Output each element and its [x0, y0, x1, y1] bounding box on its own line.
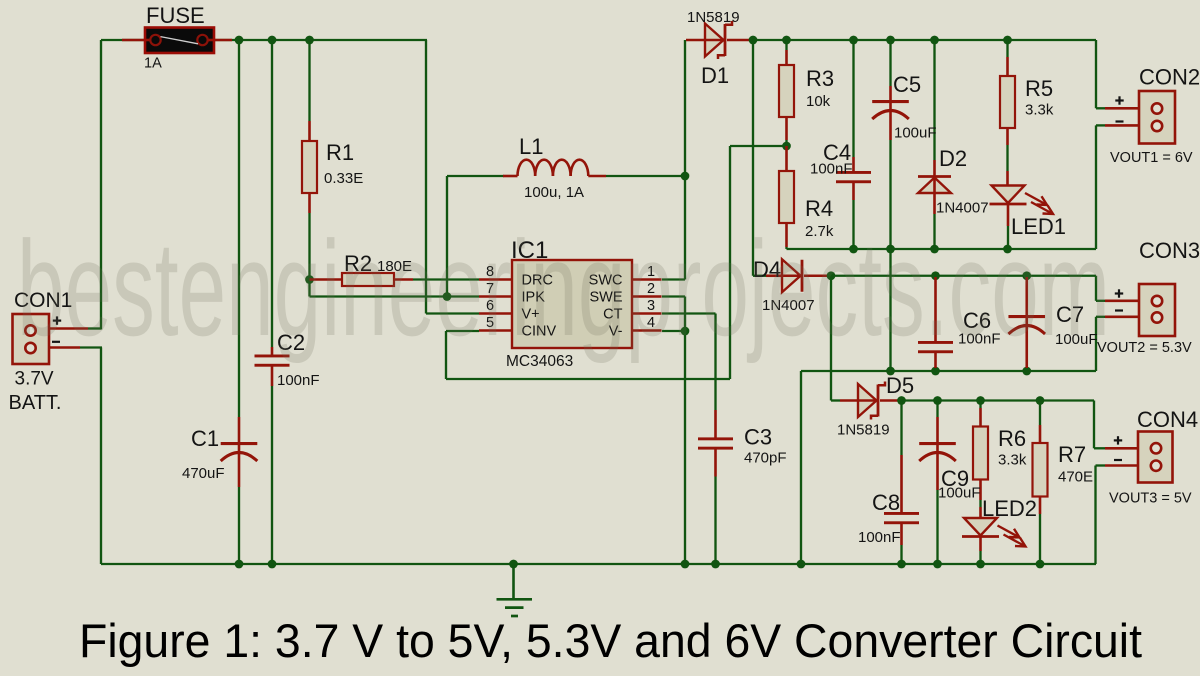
label LED2: [982, 496, 1037, 521]
pin name CT: [603, 307, 622, 323]
wire C1 branch: [238, 40, 240, 564]
pin number 8: [486, 264, 494, 280]
node junction C6 bottom: [931, 367, 940, 376]
wire Vin top rail: [101, 40, 479, 314]
wire SWE ground tie: [662, 297, 685, 565]
label C1 value 470uF: [182, 465, 225, 482]
label VOUT1 = 6V: [1110, 150, 1193, 166]
svg-text:3.3k: 3.3k: [1025, 102, 1054, 119]
capacitor C4: [836, 171, 871, 183]
wire 5V rail: [902, 401, 1153, 449]
label CON2: [1139, 65, 1200, 90]
label R7: [1058, 442, 1086, 467]
node junction C6 top: [931, 271, 940, 280]
pin name IPK: [522, 290, 546, 306]
pin number 6: [486, 298, 494, 314]
node junction section2 ground at main rail: [797, 560, 806, 569]
connector CON4: [1138, 432, 1173, 483]
svg-text:CON2: CON2: [1139, 65, 1200, 90]
label CON1 minus: [52, 341, 60, 343]
node junction D4 cathode: [827, 271, 836, 280]
pin name DRC: [522, 273, 553, 289]
wire L1 right lead: [588, 175, 685, 178]
wire L1 left lead: [447, 175, 518, 177]
svg-text:3.3k: 3.3k: [998, 452, 1027, 469]
pin name SWC: [589, 273, 623, 289]
svg-text:C8: C8: [872, 490, 900, 515]
label D1 value 1N5819: [687, 9, 740, 26]
pin name V-: [609, 324, 623, 340]
node junction C7 bottom: [1022, 367, 1031, 376]
svg-text:1N5819: 1N5819: [687, 9, 740, 26]
wire R3 top lead: [785, 40, 787, 66]
wire 5.3V rail: [831, 276, 1152, 301]
label C8 value 100nF: [858, 529, 901, 546]
svg-text:VOUT2 = 5.3V: VOUT2 = 5.3V: [1097, 340, 1192, 356]
svg-text:R3: R3: [806, 66, 834, 91]
svg-text:470pF: 470pF: [744, 450, 787, 467]
node junction D5 cathode / C8: [897, 396, 906, 405]
label VOUT3 = 5V: [1109, 491, 1192, 507]
wire IPK row: [310, 295, 480, 297]
node junction LED1 bottom: [1003, 245, 1012, 254]
svg-text:C3: C3: [744, 425, 772, 450]
capacitor C9: [919, 442, 956, 461]
wire L1 left riser: [446, 176, 448, 297]
label CON3: [1139, 238, 1200, 263]
label CON3 minus: [1115, 309, 1123, 311]
label CON2 plus: [1115, 96, 1123, 104]
label R7 value 470E: [1058, 469, 1093, 486]
node junction C5 top: [886, 36, 895, 45]
svg-text:VOUT1 = 6V: VOUT1 = 6V: [1110, 150, 1193, 166]
label IC1: [511, 237, 548, 264]
label D5 value 1N5819: [837, 422, 890, 439]
watermark bestengineeringprojects.com: [17, 213, 1110, 364]
svg-text:L1: L1: [519, 134, 543, 159]
svg-text:LED2: LED2: [982, 496, 1037, 521]
label battery BATT.: [9, 392, 62, 414]
label C5: [893, 72, 921, 97]
pin number 5: [486, 315, 494, 331]
label C5 value 100uF: [894, 125, 937, 142]
wire section1 ground rail: [787, 125, 1153, 249]
wire R4 top lead: [785, 146, 788, 172]
svg-text:100uF: 100uF: [938, 485, 981, 502]
connector CON3: [1139, 284, 1175, 336]
wire D4 cathode lead: [804, 274, 831, 277]
wire 6V output rail: [753, 40, 1152, 108]
label R6 value 3.3k: [998, 452, 1027, 469]
wire LED2 bottom lead: [979, 538, 982, 565]
wire D2 top lead: [933, 40, 935, 177]
label IC1 value MC34063: [506, 353, 573, 370]
label R3: [806, 66, 834, 91]
node junction R6 top: [976, 396, 985, 405]
label D4: [753, 257, 781, 282]
pin name SWE: [589, 290, 622, 306]
label C7 value 100uF: [1055, 331, 1098, 348]
node junction C7 top: [1022, 271, 1031, 280]
capacitor C8: [884, 512, 919, 524]
pin number 7: [486, 281, 494, 297]
inductor L1: [518, 160, 589, 176]
svg-text:BATT.: BATT.: [9, 392, 62, 414]
label R1 value 0.33E: [324, 170, 363, 187]
svg-text:1N5819: 1N5819: [837, 422, 890, 439]
node junction feedback divider: [782, 142, 791, 151]
label LED1: [1011, 214, 1066, 239]
svg-text:1A: 1A: [144, 56, 162, 72]
svg-text:C1: C1: [191, 426, 219, 451]
label fuse value 1A: [144, 56, 162, 72]
node junction C8 bottom: [897, 560, 906, 569]
wire R2 left lead: [310, 278, 344, 281]
svg-text:Figure 1: 3.7 V to 5V, 5.3V an: Figure 1: 3.7 V to 5V, 5.3V and 6V Conve…: [79, 614, 1142, 667]
svg-text:100uF: 100uF: [894, 125, 937, 142]
svg-text:100nF: 100nF: [277, 372, 320, 389]
node junction C1 bottom: [235, 560, 244, 569]
label VOUT2 = 5.3V: [1097, 340, 1192, 356]
label CON4 minus: [1114, 459, 1122, 461]
wire D1 anode lead: [686, 39, 705, 42]
node junction R1 top: [305, 36, 314, 45]
wire C8 branch: [900, 401, 902, 565]
wire main ground rail: [101, 563, 1096, 565]
label C6: [963, 308, 991, 333]
wire C5 branch: [889, 40, 891, 249]
label CON1 plus: [53, 316, 61, 324]
label D2: [939, 146, 967, 171]
node junction C3 bottom: [711, 560, 720, 569]
svg-text:100u, 1A: 100u, 1A: [524, 184, 584, 201]
wire R6 top lead: [979, 401, 981, 428]
wire D1 cathode lead: [727, 39, 753, 42]
wire R7 bottom lead: [1039, 497, 1042, 565]
wire SWC riser: [662, 40, 685, 280]
svg-text:100nF: 100nF: [858, 529, 901, 546]
node junction C9 top: [933, 396, 942, 405]
capacitor C2: [255, 355, 290, 367]
svg-text:10k: 10k: [806, 93, 831, 110]
svg-text:D2: D2: [939, 146, 967, 171]
node junction LED2 bottom: [976, 560, 985, 569]
wire R6 to LED2: [979, 479, 982, 518]
node junction L1 right / SWC / D1 anode: [681, 172, 690, 181]
label CON4 plus: [1114, 436, 1122, 444]
wire D4 junction to D5: [831, 276, 858, 401]
wire R3 bottom lead: [785, 117, 788, 146]
capacitor C1: [221, 442, 258, 461]
capacitor C5: [872, 100, 909, 119]
wire fuse left lead: [122, 39, 146, 42]
svg-text:R1: R1: [326, 140, 354, 165]
node junction C4 top: [849, 36, 858, 45]
label CON4: [1137, 407, 1198, 432]
fuse FUSE: [145, 28, 214, 54]
label FUSE: [146, 3, 205, 28]
pin name V+: [522, 307, 540, 323]
svg-text:FUSE: FUSE: [146, 3, 205, 28]
wire C4 branch: [852, 40, 854, 249]
label C2 value 100nF: [277, 372, 320, 389]
label R2 value 180E: [377, 258, 412, 275]
pin number 1: [647, 264, 655, 280]
label R5: [1025, 76, 1053, 101]
LED LED1: [990, 186, 1054, 215]
wire R1 branch: [308, 40, 310, 280]
op-amp U1 / IC1 MC34063 body: [512, 260, 632, 348]
ground: [497, 560, 533, 616]
node junction SWE/V-: [681, 327, 690, 336]
svg-text:R6: R6: [998, 426, 1026, 451]
node junction R5 top: [1003, 36, 1012, 45]
svg-text:C5: C5: [893, 72, 921, 97]
label CON3 plus: [1115, 289, 1123, 297]
wire C2 branch: [271, 40, 273, 564]
wire section2 ground rail: [801, 371, 1096, 564]
svg-text:CON4: CON4: [1137, 407, 1198, 432]
label D1: [701, 63, 729, 88]
svg-text:R7: R7: [1058, 442, 1086, 467]
wire fuse right lead: [213, 39, 232, 42]
svg-text:D1: D1: [701, 63, 729, 88]
svg-text:3.7V: 3.7V: [15, 369, 54, 390]
node junction D2 bottom: [930, 245, 939, 254]
svg-text:0.33E: 0.33E: [324, 170, 363, 187]
label C4 value 100nF: [810, 161, 853, 178]
svg-text:D5: D5: [886, 373, 914, 398]
wire C9 branch: [936, 401, 938, 565]
svg-text:R5: R5: [1025, 76, 1053, 101]
wire IC1 pin stubs: [479, 280, 662, 331]
label D2 value 1N4007: [936, 200, 989, 217]
wire R5 to LED1: [1006, 127, 1009, 186]
label R2: [344, 251, 372, 276]
wire D1 cathode to D4: [753, 40, 782, 276]
node junction tie at rail3: [886, 367, 895, 376]
wire R4 bottom lead: [785, 223, 788, 249]
node junction D1 cathode: [749, 36, 758, 45]
resistor R3: [779, 65, 794, 117]
wire node to IPK row: [308, 280, 310, 297]
caption Figure 1: [79, 614, 1142, 667]
wire CT to C3: [662, 314, 716, 439]
node junction C1 top: [235, 36, 244, 45]
label L1: [519, 134, 543, 159]
label C6 value 100nF: [958, 331, 1001, 348]
wire battery positive riser: [36, 40, 101, 330]
label CON1: [14, 289, 72, 312]
label R6: [998, 426, 1026, 451]
label D5: [886, 373, 914, 398]
wire CINV feedback path: [446, 146, 787, 379]
svg-text:100nF: 100nF: [810, 161, 853, 178]
LED LED2: [962, 518, 1026, 547]
label R4: [805, 196, 833, 221]
resistor R7: [1033, 443, 1048, 497]
wire LED1 bottom lead: [1007, 205, 1010, 249]
node junction R1 bottom / R2 left: [305, 275, 314, 284]
resistor R2: [342, 273, 394, 286]
node junction D2 top: [930, 36, 939, 45]
node junction C4 bottom: [849, 245, 858, 254]
resistor R5: [1000, 76, 1015, 128]
wire R5 top lead: [1006, 40, 1008, 77]
svg-text:VOUT3 = 5V: VOUT3 = 5V: [1109, 491, 1192, 507]
resistor R4: [779, 171, 794, 223]
capacitor C6: [918, 341, 953, 353]
label C9: [941, 466, 969, 491]
label R5 value 3.3k: [1025, 102, 1054, 119]
wire R2 right to pin 8: [393, 278, 479, 281]
wire D5 cathode lead: [880, 399, 902, 402]
capacitor C7: [1008, 315, 1045, 334]
label R3 value 10k: [806, 93, 831, 110]
svg-text:CON3: CON3: [1139, 238, 1200, 263]
diode D2: [918, 177, 951, 194]
label C4: [823, 140, 851, 165]
label C7: [1056, 302, 1084, 327]
label C3: [744, 425, 772, 450]
connector CON2: [1139, 91, 1175, 144]
diode D1: [704, 21, 732, 59]
diode D4: [781, 259, 802, 292]
wire C6 branch: [934, 277, 937, 371]
label battery voltage 3.7V: [15, 369, 54, 390]
wire C7 branch: [1025, 277, 1028, 371]
node junction R7 bottom: [1036, 560, 1045, 569]
label R4 value 2.7k: [805, 223, 834, 240]
label L1 value 100u 1A: [524, 184, 584, 201]
pin number 4: [647, 315, 655, 331]
wire battery negative to ground rail: [36, 348, 102, 565]
wire CON3 minus to section2 ground: [1096, 317, 1152, 371]
node junction R3 top: [782, 36, 791, 45]
resistor R6: [973, 427, 988, 480]
pin number 3: [647, 298, 655, 314]
svg-text:470E: 470E: [1058, 469, 1093, 486]
resistor R1: [302, 141, 317, 193]
label D4 value 1N4007: [762, 297, 815, 314]
wire ground tie rail1 to rail3: [889, 249, 891, 371]
label CON2 minus: [1116, 120, 1124, 122]
pin number 2: [647, 281, 655, 297]
label C8: [872, 490, 900, 515]
label R1: [326, 140, 354, 165]
svg-text:bestengineeringprojects.com: bestengineeringprojects.com: [17, 213, 1110, 364]
pin name CINV: [522, 324, 557, 340]
label C1: [191, 426, 219, 451]
wire CON4 minus to main ground: [1096, 466, 1153, 565]
node junction L1 left / IPK: [443, 292, 452, 301]
node junction C9 bottom: [933, 560, 942, 569]
node junction C2 bottom: [268, 560, 277, 569]
wire D2 bottom lead: [933, 193, 936, 249]
label C3 value 470pF: [744, 450, 787, 467]
connector CON1: [13, 314, 50, 364]
node junction C5 bottom: [886, 245, 895, 254]
wire C3 bottom lead: [714, 449, 717, 564]
wire R7 top lead: [1039, 401, 1041, 445]
label C9 value 100uF: [938, 485, 981, 502]
node junction C2 top: [268, 36, 277, 45]
diode D5: [857, 382, 885, 420]
node junction SWE tie at ground rail: [681, 560, 690, 569]
wire V- lead: [662, 330, 685, 332]
svg-text:470uF: 470uF: [182, 465, 225, 482]
label C2: [277, 330, 305, 355]
node junction R7 top: [1036, 396, 1045, 405]
capacitor C3: [698, 437, 733, 449]
